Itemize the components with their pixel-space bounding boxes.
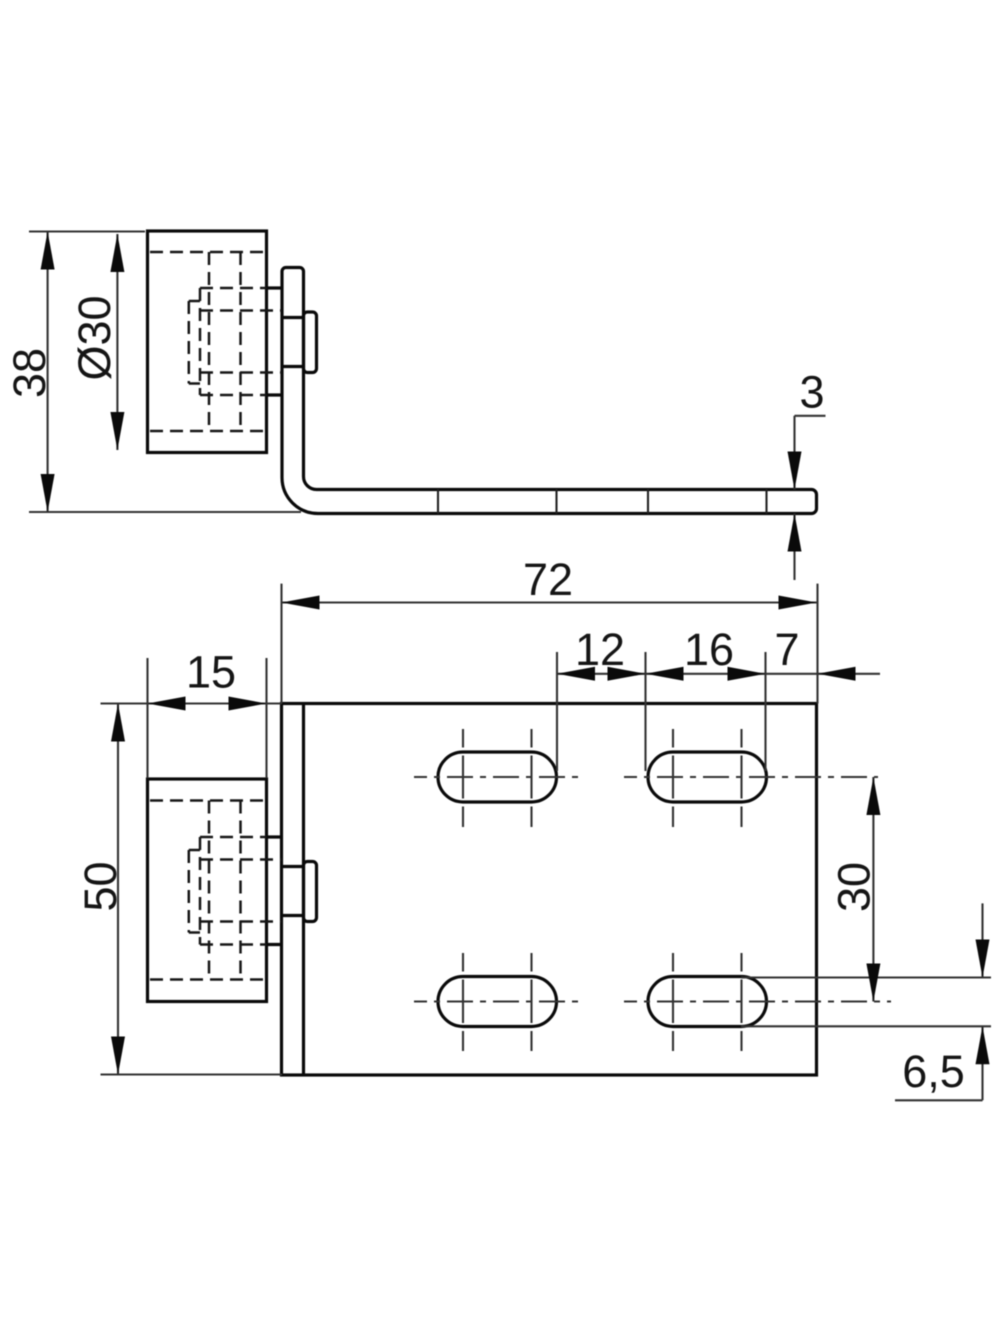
svg-text:72: 72 [523,554,573,605]
svg-text:3: 3 [799,367,824,418]
svg-text:15: 15 [186,647,236,698]
svg-text:Ø30: Ø30 [69,295,120,380]
svg-text:7: 7 [774,624,799,675]
svg-text:30: 30 [829,862,880,912]
svg-text:38: 38 [4,348,55,398]
svg-text:16: 16 [684,624,734,675]
svg-text:12: 12 [575,624,625,675]
svg-text:50: 50 [75,861,126,911]
svg-text:6,5: 6,5 [902,1046,965,1097]
